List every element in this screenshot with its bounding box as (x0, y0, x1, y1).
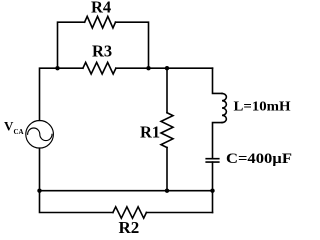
resistor R2 (113, 207, 147, 218)
wire inductor bottom to capacitor (213, 123, 223, 159)
wire R3 left (58, 67, 83, 69)
node dot right branch bottom (210, 189, 214, 193)
wire capacitor bottom (212, 162, 214, 212)
wire R4 right to node (116, 22, 149, 68)
wire R4 left branch up (58, 22, 85, 68)
node dot R1 top (165, 66, 169, 70)
node dot R4 right (146, 66, 150, 70)
svg-text:V: V (4, 118, 14, 133)
wire source top to R3 node (40, 68, 58, 120)
wire R1 branch top (166, 68, 168, 113)
inductor L (222, 93, 226, 122)
node dot left R3/R4 junction (55, 66, 59, 70)
capacitor C plates (206, 159, 219, 162)
svg-text:CA: CA (14, 128, 24, 136)
svg-text:R1: R1 (140, 122, 160, 141)
wire source bottom (40, 148, 113, 212)
wire R1 branch bottom (166, 148, 168, 191)
resistor R3 (83, 62, 116, 74)
bottom main wire (40, 190, 213, 192)
wire right branch down to inductor (213, 68, 223, 93)
wire R2 right (146, 212, 212, 214)
node dot R1 bottom (165, 189, 169, 193)
svg-text:R4: R4 (91, 0, 111, 16)
resistor R1 (161, 113, 173, 148)
wire R3 right to top-right corner (116, 67, 213, 69)
node dot source bottom (37, 189, 41, 193)
svg-text:R2: R2 (119, 218, 140, 237)
voltage source V_CA (26, 121, 54, 149)
svg-text:L=10mH: L=10mH (234, 100, 291, 115)
svg-text:R3: R3 (92, 41, 112, 60)
svg-text:C=400µF: C=400µF (226, 151, 292, 167)
resistor R4 (85, 16, 116, 28)
